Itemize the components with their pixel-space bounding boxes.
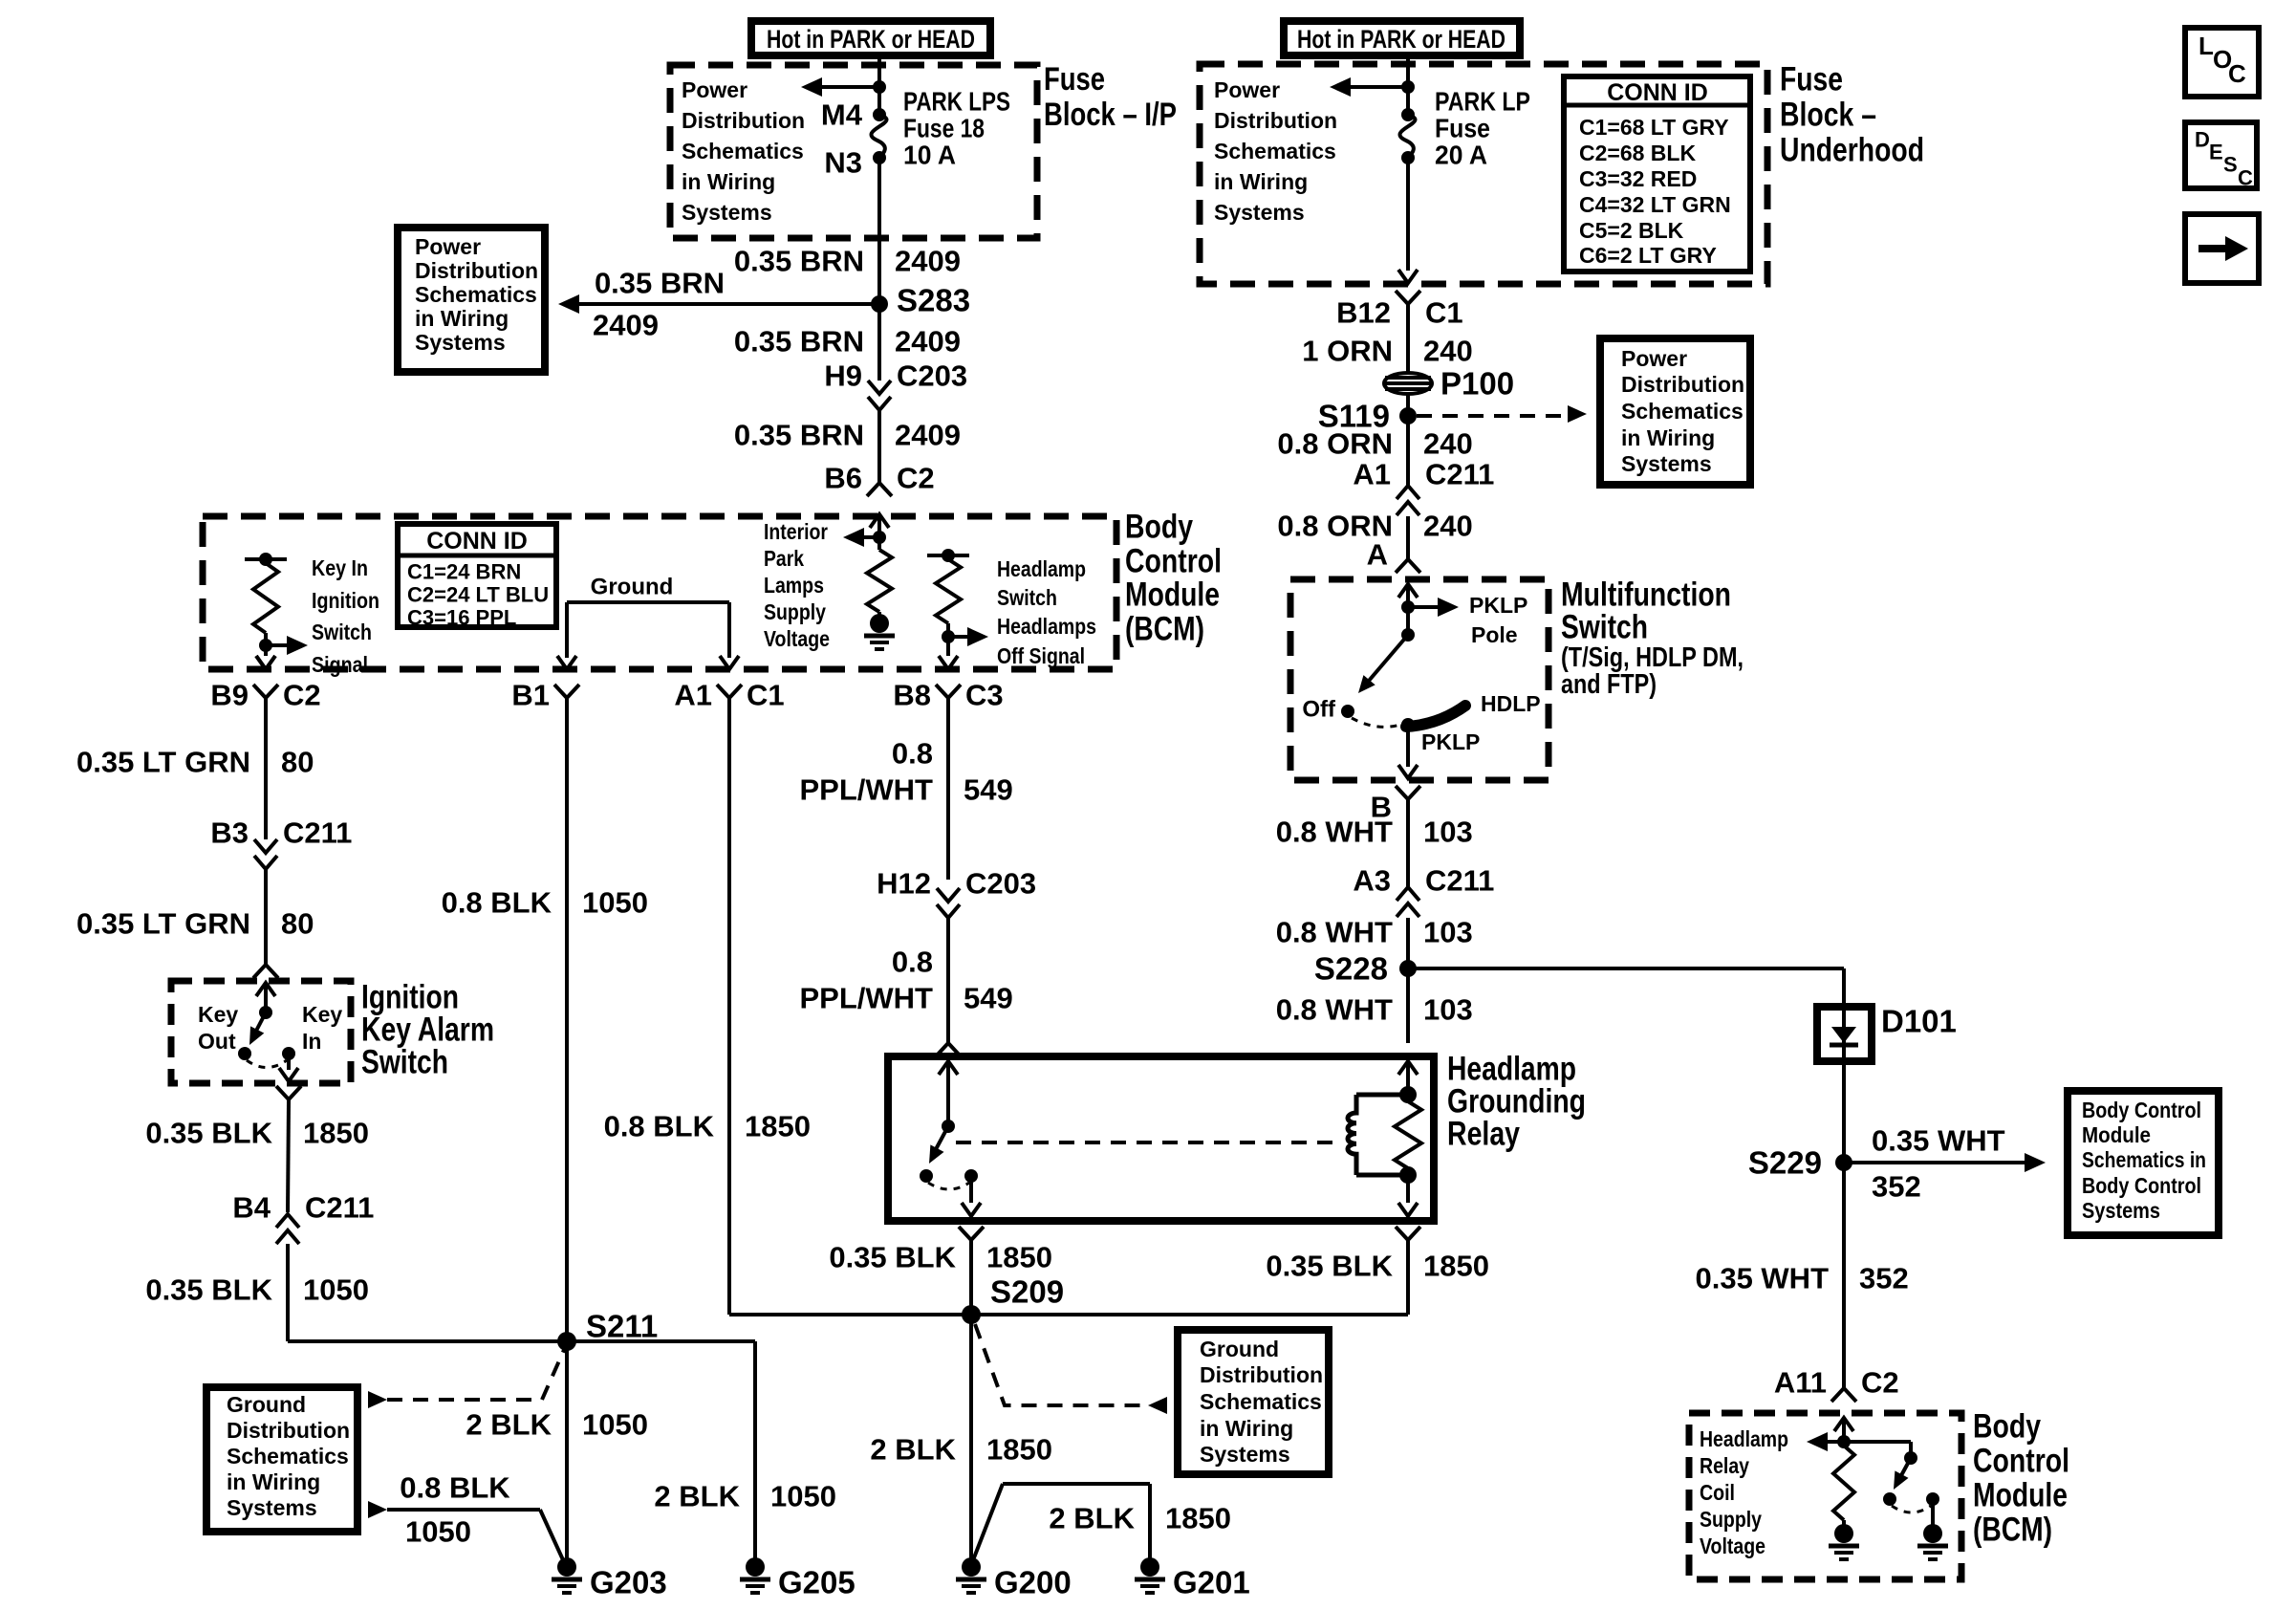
svg-text:Systems: Systems bbox=[1621, 451, 1712, 476]
svg-text:Supply: Supply bbox=[1700, 1507, 1762, 1532]
svg-text:549: 549 bbox=[964, 982, 1013, 1015]
svg-text:Key In: Key In bbox=[312, 555, 368, 580]
svg-text:in Wiring: in Wiring bbox=[227, 1469, 320, 1494]
svg-text:C2=24 LT BLU: C2=24 LT BLU bbox=[407, 583, 549, 607]
svg-text:G205: G205 bbox=[778, 1565, 856, 1600]
label 0.35 BLK 1850 (key column) bbox=[145, 1117, 369, 1150]
svg-text:Park: Park bbox=[764, 546, 804, 571]
label 2 BLK 1850 (G200 column) bbox=[870, 1433, 1052, 1467]
svg-text:0.35 BLK: 0.35 BLK bbox=[829, 1241, 956, 1274]
ignition key alarm switch internals bbox=[198, 965, 342, 1081]
label 0.8 BLK 1850 (A1 column) bbox=[604, 1110, 811, 1143]
connector B12 C1 bbox=[1336, 291, 1463, 330]
svg-text:Control: Control bbox=[1973, 1443, 2069, 1480]
svg-text:Power: Power bbox=[415, 234, 481, 259]
svg-text:0.35 BLK: 0.35 BLK bbox=[145, 1117, 272, 1150]
svg-text:2409: 2409 bbox=[895, 325, 961, 359]
in-line connector H9 C203 bbox=[824, 359, 967, 411]
svg-text:Ground: Ground bbox=[227, 1392, 306, 1417]
svg-text:Schematics: Schematics bbox=[1200, 1389, 1322, 1414]
label 0.8 ORN 240 (below A1) bbox=[1277, 510, 1472, 543]
svg-text:D: D bbox=[2195, 128, 2210, 152]
headlamp relay coil supply arrow (BCM bottom) bbox=[1807, 1418, 1853, 1451]
svg-text:H9: H9 bbox=[824, 359, 862, 393]
svg-text:S209: S209 bbox=[990, 1274, 1064, 1310]
svg-text:B4: B4 bbox=[232, 1191, 271, 1225]
pin label A (multifunction switch) bbox=[1367, 538, 1388, 572]
svg-text:C3=16 PPL: C3=16 PPL bbox=[407, 606, 516, 630]
svg-text:Systems: Systems bbox=[227, 1495, 317, 1520]
svg-text:Schematics: Schematics bbox=[227, 1444, 349, 1469]
svg-text:2409: 2409 bbox=[895, 419, 961, 452]
svg-text:Relay: Relay bbox=[1700, 1453, 1749, 1478]
fuse block - underhood dashed box bbox=[1200, 64, 1767, 284]
svg-text:Headlamp: Headlamp bbox=[1700, 1426, 1788, 1451]
svg-text:C1=68 LT GRY: C1=68 LT GRY bbox=[1579, 115, 1729, 140]
svg-text:Switch: Switch bbox=[361, 1044, 448, 1081]
svg-text:0.35 BLK: 0.35 BLK bbox=[145, 1273, 272, 1307]
svg-text:Hot in PARK or HEAD: Hot in PARK or HEAD bbox=[1297, 25, 1505, 54]
svg-text:0.35 WHT: 0.35 WHT bbox=[1695, 1262, 1829, 1295]
label 0.35 BLK 1850 (relay right) bbox=[1266, 1250, 1489, 1283]
svg-text:S229: S229 bbox=[1748, 1145, 1822, 1181]
svg-text:Headlamp: Headlamp bbox=[997, 556, 1086, 581]
wire S209 to ground G200 bbox=[969, 1315, 973, 1559]
svg-text:C2: C2 bbox=[1861, 1366, 1899, 1400]
headlamp relay coil supply voltage text bbox=[1700, 1426, 1788, 1558]
body control module dashed box bbox=[203, 516, 1116, 669]
svg-text:B6: B6 bbox=[824, 462, 862, 495]
in-line connector B4 C211 bbox=[232, 1191, 374, 1245]
svg-text:G203: G203 bbox=[590, 1565, 667, 1600]
svg-text:S: S bbox=[2223, 153, 2238, 177]
relay switch (headlamp grounding relay) bbox=[920, 1061, 981, 1216]
svg-text:1050: 1050 bbox=[405, 1515, 471, 1549]
svg-text:S211: S211 bbox=[586, 1309, 658, 1344]
svg-text:Key: Key bbox=[302, 1002, 342, 1027]
svg-text:in Wiring: in Wiring bbox=[1200, 1416, 1293, 1441]
svg-text:B9: B9 bbox=[210, 679, 249, 712]
ref box: Ground Distribution Schematics in Wiring Systems (middle) bbox=[1178, 1330, 1329, 1474]
svg-text:A1: A1 bbox=[674, 679, 712, 712]
splice S283 bbox=[871, 283, 970, 318]
svg-text:HDLP: HDLP bbox=[1481, 691, 1541, 716]
label 0.35 WHT 352 (A11 column) bbox=[1695, 1262, 1908, 1295]
svg-text:Ground: Ground bbox=[1200, 1337, 1279, 1361]
ground bracket to pins B1 and A1 (BCM) bbox=[557, 575, 739, 670]
svg-text:in Wiring: in Wiring bbox=[1214, 169, 1308, 194]
svg-text:0.8: 0.8 bbox=[892, 737, 933, 771]
arrow legend box bbox=[2185, 214, 2259, 283]
svg-text:Power: Power bbox=[1214, 77, 1280, 102]
svg-text:Coil: Coil bbox=[1700, 1480, 1735, 1505]
wire from S283 left to power distribution schematics bbox=[558, 267, 879, 342]
label 1 ORN 240 bbox=[1302, 335, 1472, 368]
svg-text:G201: G201 bbox=[1173, 1565, 1250, 1600]
wire key alarm switch to connector B4 bbox=[288, 1099, 289, 1212]
wire B9 to connector B3 bbox=[264, 698, 268, 839]
svg-text:B8: B8 bbox=[893, 679, 931, 712]
body control module (BCM) title (bottom right) bbox=[1973, 1408, 2069, 1549]
svg-text:C1: C1 bbox=[747, 679, 785, 712]
splice S119 bbox=[1318, 399, 1417, 434]
CONN ID table (fuse block underhood) bbox=[1564, 76, 1750, 272]
svg-text:Distribution: Distribution bbox=[415, 258, 538, 283]
svg-text:Body Control: Body Control bbox=[2082, 1173, 2201, 1198]
wire S119 to connector C211 (A1) bbox=[1406, 416, 1410, 486]
svg-text:C2: C2 bbox=[283, 679, 321, 712]
svg-text:0.8 BLK: 0.8 BLK bbox=[604, 1110, 715, 1143]
svg-text:Ground: Ground bbox=[591, 575, 674, 600]
svg-text:Fuse: Fuse bbox=[1044, 61, 1105, 98]
wire S211 to ground G205 bbox=[567, 1341, 755, 1559]
svg-text:C211: C211 bbox=[283, 816, 352, 850]
LOC legend box bbox=[2185, 28, 2259, 97]
svg-text:0.8 WHT: 0.8 WHT bbox=[1276, 816, 1393, 849]
svg-text:Module: Module bbox=[2082, 1122, 2151, 1147]
svg-text:C: C bbox=[2238, 166, 2253, 190]
connector B8 C3 below BCM bbox=[893, 679, 1003, 712]
svg-text:PARK LP: PARK LP bbox=[1435, 87, 1530, 117]
resistor (BCM bottom) bbox=[1833, 1446, 1854, 1526]
splice S229 bbox=[1748, 1145, 1852, 1181]
svg-text:PARK LPS: PARK LPS bbox=[903, 87, 1010, 117]
svg-text:1850: 1850 bbox=[303, 1117, 369, 1150]
svg-text:B1: B1 bbox=[511, 679, 550, 712]
svg-text:CONN ID: CONN ID bbox=[426, 528, 528, 555]
svg-text:Off Signal: Off Signal bbox=[997, 643, 1085, 668]
svg-text:0.35 BRN: 0.35 BRN bbox=[595, 267, 725, 300]
svg-text:(BCM): (BCM) bbox=[1125, 611, 1204, 648]
svg-text:0.35 BRN: 0.35 BRN bbox=[734, 245, 864, 278]
ref box: Ground Distribution Schematics in Wiring Systems (left) bbox=[206, 1387, 357, 1532]
svg-text:0.35 BRN: 0.35 BRN bbox=[734, 325, 864, 359]
svg-text:C203: C203 bbox=[965, 867, 1036, 901]
connector A1 C1 below BCM bbox=[674, 679, 784, 712]
svg-text:Module: Module bbox=[1125, 577, 1220, 614]
svg-text:C2=68 BLK: C2=68 BLK bbox=[1579, 141, 1696, 165]
svg-text:240: 240 bbox=[1423, 427, 1473, 461]
wire S209 to relay coil return bbox=[971, 1227, 1420, 1315]
svg-text:C4=32 LT GRN: C4=32 LT GRN bbox=[1579, 192, 1731, 217]
wire fuse to connector B12 C1 bbox=[1398, 158, 1418, 283]
ref text: Power Distribution Schematics in Wiring Systems (fuse block I/P) bbox=[682, 77, 805, 225]
multifunction switch movable contact arm bbox=[1353, 628, 1415, 698]
multifunction switch HDLP contact arc bbox=[1406, 691, 1541, 727]
connector B below multifunction switch bbox=[1371, 786, 1420, 824]
wire relay switch output to S209 bbox=[959, 1227, 984, 1315]
multifunction switch title bbox=[1561, 577, 1744, 701]
svg-text:10 A: 10 A bbox=[903, 141, 956, 170]
svg-text:352: 352 bbox=[1872, 1170, 1921, 1204]
svg-text:1850: 1850 bbox=[986, 1241, 1052, 1274]
wire G200 to ground G201 bbox=[971, 1484, 1150, 1565]
svg-text:S228: S228 bbox=[1314, 951, 1388, 987]
wire C211 to multifunction switch pin A bbox=[1396, 516, 1420, 573]
svg-text:in Wiring: in Wiring bbox=[415, 306, 509, 331]
svg-text:Key: Key bbox=[198, 1002, 238, 1027]
multifunction switch pole arrow PKLP bbox=[1398, 584, 1527, 647]
ignition key alarm switch title bbox=[361, 979, 494, 1081]
ref box: Power Distribution Schematics in Wiring Systems (right) bbox=[1600, 338, 1750, 485]
label 0.35 BLK 1850 (relay left) bbox=[829, 1241, 1052, 1274]
svg-text:0.8 BLK: 0.8 BLK bbox=[442, 886, 552, 920]
svg-text:20 A: 20 A bbox=[1435, 141, 1487, 170]
svg-text:1850: 1850 bbox=[1165, 1502, 1231, 1535]
label 0.35 BLK 1050 (key column) bbox=[145, 1273, 369, 1307]
svg-text:P100: P100 bbox=[1440, 366, 1514, 402]
pass-through grommet P100 bbox=[1384, 366, 1514, 402]
svg-text:Pole: Pole bbox=[1471, 622, 1518, 647]
label 2 BLK 1050 (G205 column) bbox=[654, 1480, 836, 1513]
relay internal dashed link bbox=[956, 1141, 1336, 1144]
ground G201 bbox=[1135, 1557, 1250, 1600]
svg-text:Distribution: Distribution bbox=[1214, 108, 1337, 133]
in-line connector A3 C211 bbox=[1353, 864, 1494, 918]
svg-text:D101: D101 bbox=[1881, 1004, 1957, 1039]
in-line connector B3 C211 bbox=[210, 816, 352, 870]
svg-text:Body Control: Body Control bbox=[2082, 1098, 2201, 1122]
ground G203 bbox=[552, 1557, 667, 1600]
body control module dashed box (bottom right) bbox=[1689, 1413, 1961, 1579]
svg-text:PPL/WHT: PPL/WHT bbox=[800, 982, 934, 1015]
splice S228 bbox=[1314, 951, 1417, 987]
fuse PARK LP Fuse 20 A bbox=[1399, 87, 1530, 170]
connector B1 below BCM bbox=[511, 679, 579, 712]
power feed box: Hot in PARK or HEAD (I/P) bbox=[751, 21, 990, 55]
wire S229 to BCM pin A11 bbox=[1842, 1163, 1846, 1388]
svg-text:Distribution: Distribution bbox=[227, 1418, 350, 1443]
multifunction switch dashed box bbox=[1290, 579, 1549, 780]
power feed box: Hot in PARK or HEAD (underhood) bbox=[1284, 21, 1520, 55]
diode D101 bbox=[1817, 1004, 1957, 1062]
multifunction switch Off contact bbox=[1302, 697, 1354, 723]
svg-text:A11: A11 bbox=[1774, 1366, 1827, 1400]
svg-text:240: 240 bbox=[1423, 510, 1473, 543]
body control module (BCM) title bbox=[1125, 509, 1222, 648]
svg-text:Systems: Systems bbox=[682, 200, 772, 225]
svg-text:Switch: Switch bbox=[312, 620, 372, 644]
label 0.8 PPL/WHT 549 (lower) bbox=[800, 946, 1013, 1015]
label 0.35 BRN 2409 above S283 bbox=[734, 245, 961, 278]
svg-text:A3: A3 bbox=[1353, 864, 1391, 898]
svg-text:103: 103 bbox=[1423, 993, 1473, 1027]
fuse block - underhood title bbox=[1780, 61, 1924, 169]
fuse block - I/P dashed box bbox=[670, 65, 1037, 238]
svg-text:Hot in PARK or HEAD: Hot in PARK or HEAD bbox=[767, 25, 975, 54]
svg-text:C211: C211 bbox=[1425, 864, 1494, 898]
svg-text:Fuse: Fuse bbox=[1780, 61, 1843, 98]
wire B3 to ignition key alarm switch bbox=[264, 869, 268, 965]
label 0.35 LT GRN 80 (lower) bbox=[76, 907, 314, 941]
svg-text:Voltage: Voltage bbox=[764, 626, 830, 651]
svg-text:103: 103 bbox=[1423, 816, 1473, 849]
arrow S229 to body control module schematics bbox=[1844, 1124, 2046, 1204]
wire D101 to splice S229 bbox=[1842, 1061, 1846, 1163]
svg-text:1850: 1850 bbox=[745, 1110, 811, 1143]
ground (BCM bottom left) bbox=[1829, 1524, 1859, 1559]
connector B9 C2 below BCM bbox=[210, 656, 320, 712]
headlamp grounding relay box bbox=[888, 1056, 1434, 1221]
ref text: Power Distribution Schematics in Wiring Systems (underhood) bbox=[1214, 77, 1337, 225]
svg-text:2409: 2409 bbox=[593, 309, 659, 342]
wire from Hot in PARK or HEAD feed down to fuse block I/P bbox=[877, 55, 881, 115]
svg-text:C5=2 BLK: C5=2 BLK bbox=[1579, 218, 1684, 243]
svg-text:C1=24 BRN: C1=24 BRN bbox=[407, 560, 521, 584]
svg-text:M4: M4 bbox=[821, 98, 863, 132]
svg-text:Underhood: Underhood bbox=[1780, 132, 1924, 169]
svg-text:Out: Out bbox=[198, 1029, 236, 1054]
wire B12 to P100 bbox=[1406, 304, 1410, 373]
svg-text:Relay: Relay bbox=[1447, 1116, 1520, 1153]
svg-text:0.35 BRN: 0.35 BRN bbox=[734, 419, 864, 452]
fuse block - I/P title bbox=[1044, 61, 1177, 133]
label 0.35 BRN 2409 below C203 bbox=[734, 419, 961, 452]
svg-text:Systems: Systems bbox=[2082, 1198, 2160, 1223]
wire from fuse N3 down to splice S283 bbox=[877, 158, 881, 304]
svg-text:Schematics: Schematics bbox=[1214, 139, 1336, 163]
svg-text:1050: 1050 bbox=[770, 1480, 836, 1513]
svg-text:0.8 ORN: 0.8 ORN bbox=[1277, 427, 1393, 461]
svg-text:352: 352 bbox=[1859, 1262, 1909, 1295]
wire A3 to splice S228 bbox=[1406, 918, 1410, 968]
svg-text:Switch: Switch bbox=[997, 585, 1057, 610]
svg-text:Body: Body bbox=[1125, 509, 1193, 546]
wire S228 to headlamp grounding relay bbox=[1406, 968, 1410, 1043]
svg-text:Schematics: Schematics bbox=[682, 139, 804, 163]
svg-text:0.35 BLK: 0.35 BLK bbox=[1266, 1250, 1393, 1283]
svg-text:80: 80 bbox=[281, 746, 314, 779]
CONN ID table (BCM) bbox=[398, 524, 556, 630]
svg-text:Distribution: Distribution bbox=[1200, 1362, 1323, 1387]
svg-text:C3=32 RED: C3=32 RED bbox=[1579, 166, 1697, 191]
splice S211 bbox=[557, 1309, 658, 1352]
svg-text:A1: A1 bbox=[1353, 458, 1391, 491]
svg-text:PKLP: PKLP bbox=[1421, 729, 1480, 754]
svg-text:PPL/WHT: PPL/WHT bbox=[800, 773, 934, 807]
wire BCM pin A1 down to splice S209 bbox=[729, 698, 971, 1315]
svg-text:103: 103 bbox=[1423, 916, 1473, 949]
svg-text:0.35 LT GRN: 0.35 LT GRN bbox=[76, 907, 250, 941]
svg-text:(BCM): (BCM) bbox=[1973, 1512, 2052, 1549]
svg-text:and FTP): and FTP) bbox=[1561, 669, 1657, 700]
wire B4 to splice S211 bbox=[288, 1244, 567, 1341]
wire multifunction switch B to connector A3 bbox=[1406, 799, 1410, 887]
svg-text:Schematics: Schematics bbox=[415, 282, 537, 307]
svg-text:0.8 WHT: 0.8 WHT bbox=[1276, 993, 1393, 1027]
svg-text:2 BLK: 2 BLK bbox=[466, 1408, 552, 1442]
svg-text:Supply: Supply bbox=[764, 599, 826, 624]
svg-text:C203: C203 bbox=[897, 359, 967, 393]
label 2 BLK 1050 (G203 column) bbox=[466, 1408, 648, 1442]
in-line connector A1 C211 (right) bbox=[1353, 458, 1494, 516]
svg-text:Module: Module bbox=[1973, 1477, 2068, 1514]
svg-text:2 BLK: 2 BLK bbox=[1049, 1502, 1135, 1535]
label 0.8 WHT 103 (below B) bbox=[1276, 816, 1473, 849]
svg-text:C2: C2 bbox=[897, 462, 935, 495]
svg-text:Interior: Interior bbox=[764, 519, 828, 544]
svg-text:in Wiring: in Wiring bbox=[1621, 425, 1715, 450]
svg-text:2409: 2409 bbox=[895, 245, 961, 278]
svg-text:0.8 WHT: 0.8 WHT bbox=[1276, 916, 1393, 949]
wire S283 to connector C203 bbox=[877, 304, 881, 381]
svg-text:Control: Control bbox=[1125, 543, 1222, 580]
svg-text:Lamps: Lamps bbox=[764, 573, 824, 598]
svg-text:E: E bbox=[2209, 141, 2223, 164]
svg-text:Power: Power bbox=[1621, 346, 1687, 371]
svg-text:1050: 1050 bbox=[582, 886, 648, 920]
connector B6 C2 into BCM bbox=[824, 462, 934, 538]
multifunction switch PKLP output bbox=[1398, 718, 1480, 778]
dashed reference arrow S209 to ground distribution box (middle) bbox=[975, 1324, 1167, 1414]
label 2 BLK 1850 (G201 column) bbox=[1049, 1502, 1231, 1535]
svg-text:0.8 BLK: 0.8 BLK bbox=[400, 1471, 510, 1505]
wire from Hot feed down into fuse block underhood bbox=[1406, 55, 1410, 115]
ref box: Body Control Module Schematics in Body Control Systems bbox=[2068, 1091, 2219, 1235]
wire S211 to ground G203 bbox=[565, 1341, 569, 1559]
svg-text:N3: N3 bbox=[824, 146, 862, 180]
dashed reference arrow S119 to power distribution box bbox=[1417, 405, 1587, 423]
wire 0.8 BLK 1050 from ground distribution to G203 bbox=[368, 1471, 565, 1565]
svg-text:Ignition: Ignition bbox=[312, 588, 379, 613]
svg-text:G200: G200 bbox=[994, 1565, 1072, 1600]
svg-text:C211: C211 bbox=[305, 1191, 374, 1225]
arrow to power distribution schematics inside fuse block underhood bbox=[1330, 77, 1415, 97]
label 0.8 BLK 1050 (B1 column) bbox=[442, 886, 648, 920]
svg-text:1050: 1050 bbox=[303, 1273, 369, 1307]
svg-text:0.35 WHT: 0.35 WHT bbox=[1872, 1124, 2005, 1158]
svg-text:PKLP: PKLP bbox=[1469, 593, 1527, 618]
svg-text:240: 240 bbox=[1423, 335, 1473, 368]
ground G200 bbox=[956, 1557, 1072, 1600]
svg-text:S283: S283 bbox=[897, 283, 970, 318]
svg-text:1850: 1850 bbox=[986, 1433, 1052, 1467]
svg-text:Schematics in: Schematics in bbox=[2082, 1147, 2206, 1172]
arrow to power distribution schematics inside fuse block I/P bbox=[801, 77, 886, 97]
svg-text:Systems: Systems bbox=[415, 330, 506, 355]
svg-text:C: C bbox=[2228, 59, 2246, 88]
svg-text:Systems: Systems bbox=[1200, 1442, 1290, 1467]
svg-text:80: 80 bbox=[281, 907, 314, 941]
svg-text:Body: Body bbox=[1973, 1408, 2041, 1446]
ref box: Power Distribution Schematics in Wiring Systems (left) bbox=[398, 228, 545, 372]
resistor: interior park lamps supply voltage (BCM) bbox=[764, 519, 895, 651]
switch (BCM bottom) bbox=[1844, 1442, 1939, 1525]
ignition key alarm switch dashed box bbox=[171, 981, 351, 1083]
label 0.8 WHT 103 (above S228) bbox=[1276, 916, 1473, 949]
relay coil and resistor (headlamp grounding relay) bbox=[1348, 1061, 1421, 1216]
in-line connector H12 C203 bbox=[877, 867, 1036, 919]
svg-text:Off: Off bbox=[1302, 697, 1336, 723]
svg-text:In: In bbox=[302, 1029, 321, 1054]
multifunction switch dashed travel arc bbox=[1352, 718, 1403, 727]
svg-text:Signal: Signal bbox=[312, 652, 368, 677]
svg-text:C1: C1 bbox=[1425, 296, 1463, 330]
resistor: headlamp switch headlamps off signal (BCM) bbox=[927, 549, 1096, 669]
wire C203 to headlamp grounding relay bbox=[936, 918, 961, 1056]
splice S209 bbox=[962, 1274, 1064, 1325]
connector below ignition key alarm switch bbox=[276, 1086, 301, 1099]
svg-text:in Wiring: in Wiring bbox=[682, 169, 775, 194]
svg-text:549: 549 bbox=[964, 773, 1013, 807]
headlamp grounding relay title bbox=[1447, 1051, 1586, 1153]
ground G205 bbox=[740, 1557, 856, 1600]
label 0.8 WHT 103 (below S228) bbox=[1276, 993, 1473, 1027]
svg-text:Distribution: Distribution bbox=[1621, 372, 1744, 397]
svg-text:0.8: 0.8 bbox=[892, 946, 933, 979]
svg-text:Fuse: Fuse bbox=[1435, 114, 1490, 143]
svg-text:A: A bbox=[1367, 538, 1388, 572]
